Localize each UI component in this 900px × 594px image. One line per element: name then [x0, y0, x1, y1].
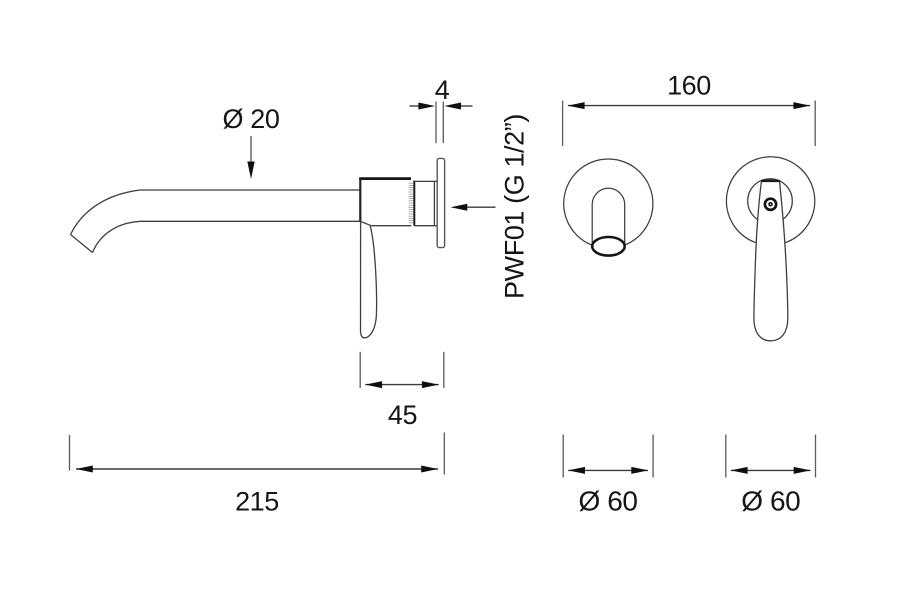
svg-text:45: 45 [388, 400, 417, 430]
svg-text:160: 160 [667, 71, 711, 101]
svg-text:PWF01 (G 1/2”): PWF01 (G 1/2”) [500, 114, 530, 299]
svg-text:Ø 60: Ø 60 [578, 486, 637, 517]
svg-text:Ø 20: Ø 20 [223, 104, 280, 134]
svg-text:215: 215 [235, 487, 279, 517]
svg-text:Ø 60: Ø 60 [741, 486, 800, 517]
svg-text:4: 4 [435, 75, 450, 105]
